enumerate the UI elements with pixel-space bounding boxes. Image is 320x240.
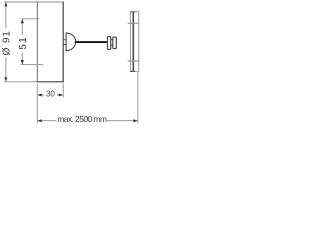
dimension max 2500 extension line right [137, 72, 139, 123]
wall rail front edge (dark inner line) [132, 12, 134, 72]
svg-text:30: 30 [46, 89, 55, 98]
slider connector [111, 40, 113, 46]
arm [75, 41, 108, 43]
mirror plate left edge [36, 2, 38, 83]
dimension max 2500 arrow left [37, 119, 41, 122]
dimension Ø91 arrow up [4, 2, 7, 6]
wall rail top edge dark segment [130, 11, 135, 13]
slider bar 2 [113, 37, 117, 49]
dimension 51 line [21, 22, 23, 61]
wall rail bottom edge dark segment [130, 70, 135, 72]
wall rail lower tick [128, 60, 139, 62]
dimension Ø91 extension line top [4, 1, 37, 3]
mirror plate right edge [62, 2, 64, 83]
dimension max 2500 arrow right [134, 119, 138, 122]
dimension 51 extension line bottom [21, 63, 44, 65]
dimension 30 line [41, 94, 60, 96]
dimension Ø91 arrow down [4, 77, 7, 81]
dimension 30 arrow right [59, 94, 63, 97]
ball joint (D shape) [66, 33, 76, 51]
svg-text:51: 51 [18, 36, 29, 50]
wall rail outer rectangle [130, 12, 138, 72]
svg-text:max. 2500 mm: max. 2500 mm [57, 114, 107, 124]
mirror plate bottom edge [37, 81, 64, 83]
dimension 51 extension line top [21, 18, 40, 20]
dimension 51 arrow down [21, 60, 24, 64]
dimension Ø91 line [5, 6, 7, 79]
dimension 30 extension line left [36, 84, 38, 124]
dimension 51 arrow up [21, 19, 24, 23]
mirror plate (side view rectangle) [37, 2, 63, 82]
mirror plate top edge [37, 1, 64, 3]
svg-text:Ø 91: Ø 91 [1, 30, 12, 55]
dimension 30 arrow left [37, 94, 41, 97]
ball joint neck [63, 40, 66, 45]
wall rail upper tick [128, 22, 139, 24]
dimension 30 extension line right [62, 84, 64, 98]
slider bar 1 [107, 37, 110, 50]
dimension Ø91 extension line bottom [4, 81, 37, 83]
dimension max 2500 line [41, 120, 135, 122]
